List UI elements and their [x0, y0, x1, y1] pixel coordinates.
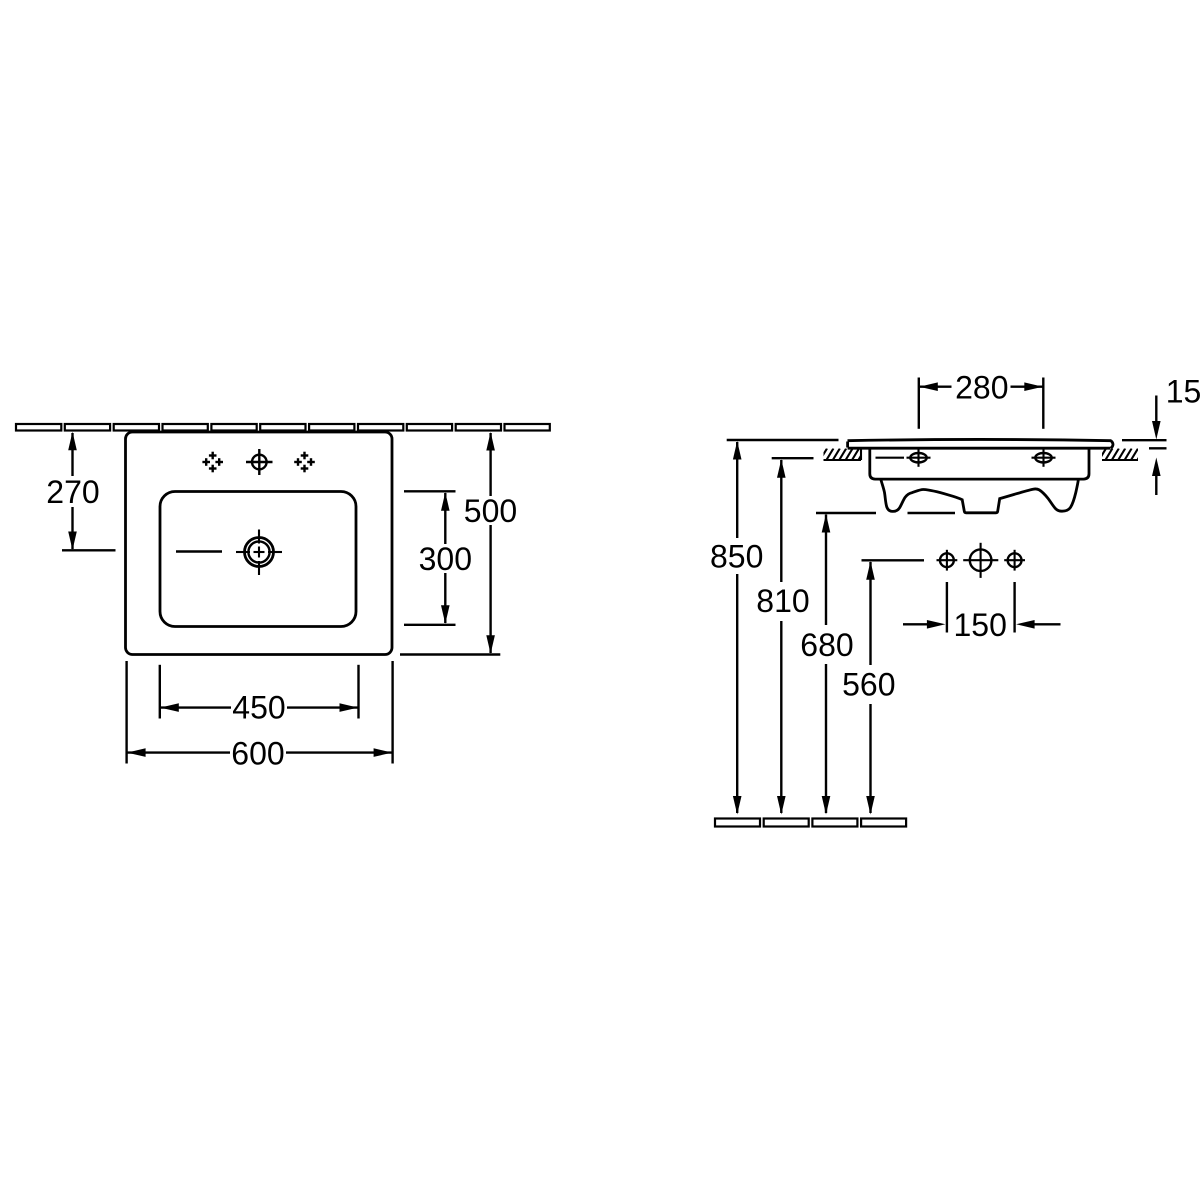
svg-text:600: 600: [231, 736, 284, 772]
svg-text:680: 680: [800, 627, 853, 663]
svg-text:810: 810: [756, 583, 809, 619]
svg-text:850: 850: [710, 539, 763, 575]
svg-text:560: 560: [842, 667, 895, 703]
svg-text:280: 280: [955, 369, 1008, 405]
svg-text:500: 500: [464, 493, 517, 529]
svg-text:150: 150: [954, 607, 1007, 643]
svg-text:270: 270: [46, 474, 99, 510]
svg-text:450: 450: [232, 689, 285, 725]
svg-text:15: 15: [1166, 373, 1200, 409]
svg-text:300: 300: [419, 541, 472, 577]
